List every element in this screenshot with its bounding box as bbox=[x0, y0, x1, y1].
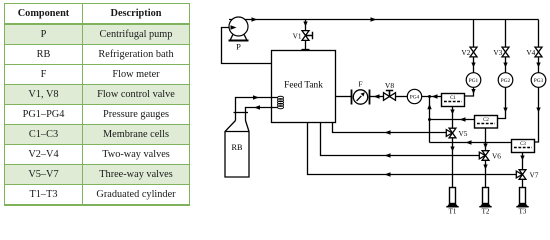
wire: pump suction from feed tank left side bbox=[222, 28, 272, 64]
three-way valve V7 bbox=[519, 170, 526, 180]
wire: V4 branch bbox=[538, 20, 540, 73]
pressure gauge PG2 bbox=[498, 73, 513, 88]
arrow toward F bbox=[374, 94, 380, 98]
arrow on manifold near pump bbox=[252, 17, 258, 21]
pressure gauge PG3 bbox=[531, 73, 546, 88]
svg-text:V7: V7 bbox=[530, 171, 539, 180]
cooling coil inside tank bbox=[278, 96, 284, 109]
wire: PG3 into C3 feed port bbox=[535, 87, 539, 142]
svg-text:V5: V5 bbox=[459, 129, 468, 138]
wire: V7 down to T3 bbox=[522, 179, 524, 187]
membrane cell C3 bbox=[512, 140, 535, 153]
svg-text:C3: C3 bbox=[520, 142, 526, 147]
wire: tank outlet to flow meter bbox=[336, 96, 352, 98]
nozzle tick at tank top bbox=[302, 49, 310, 51]
svg-text:V6: V6 bbox=[492, 152, 501, 161]
arrow up on collector bbox=[427, 104, 431, 110]
svg-text:C2: C2 bbox=[483, 118, 489, 123]
svg-text:PG4: PG4 bbox=[410, 95, 420, 101]
svg-text:PG2: PG2 bbox=[501, 78, 511, 84]
wire: coil return to RB bbox=[246, 108, 279, 121]
wire: V6 down to T2 bbox=[485, 160, 487, 187]
pressure gauge PG4 bbox=[407, 89, 421, 103]
svg-text:V8: V8 bbox=[385, 81, 394, 90]
pump P bbox=[229, 17, 248, 36]
flow meter F bbox=[352, 90, 370, 105]
valve V3 bbox=[502, 47, 509, 57]
svg-text:V4: V4 bbox=[526, 48, 535, 57]
three-way valve V6 bbox=[482, 151, 489, 161]
svg-text:V2: V2 bbox=[461, 48, 470, 57]
wire: F to V8 bbox=[370, 96, 384, 98]
arrow down above PG3 bbox=[536, 63, 540, 68]
wire: V5 down to T1 bbox=[452, 138, 454, 188]
svg-text:PG1: PG1 bbox=[469, 78, 479, 84]
arrow on manifold mid-span bbox=[371, 17, 377, 21]
arrow toward RB bbox=[254, 105, 260, 109]
wire: V2 branch bbox=[473, 20, 475, 73]
wire: PG1 into C1 feed port bbox=[465, 87, 474, 96]
svg-text:PG3: PG3 bbox=[534, 78, 544, 84]
wire: return line 2 to feed tank bbox=[321, 123, 480, 156]
membrane cell C1 bbox=[442, 94, 465, 107]
svg-text:C1: C1 bbox=[450, 96, 456, 101]
valve V8 bbox=[384, 93, 396, 101]
wire: RB supply into coil bbox=[236, 98, 279, 121]
wire: return line 3 to feed tank bbox=[308, 123, 517, 175]
wire: V8 to PG4 bbox=[396, 96, 408, 98]
wire: PG2 into C2 feed port bbox=[498, 87, 506, 118]
svg-text:T2: T2 bbox=[482, 208, 490, 216]
wire: C3 permeate down to V7 bbox=[522, 153, 524, 170]
arrow down above PG1 bbox=[471, 63, 475, 68]
valve V4 bbox=[535, 47, 542, 57]
wire: return line 1 to feed tank bbox=[333, 123, 447, 133]
wire: top manifold from pump outlet to V4 branch bbox=[229, 19, 539, 21]
wire: retentate collector vertical bbox=[429, 97, 431, 143]
valve V2 bbox=[470, 47, 477, 57]
svg-text:Feed Tank: Feed Tank bbox=[284, 81, 323, 91]
svg-text:V1: V1 bbox=[293, 32, 302, 41]
wire: C3 retentate to collector bbox=[430, 142, 512, 144]
component legend table bbox=[4, 3, 190, 206]
graduated cylinder T1 bbox=[446, 188, 458, 216]
svg-text:P: P bbox=[236, 42, 241, 52]
wire: PG4 to cell C1 retentate port bbox=[422, 96, 442, 98]
junction node on retentate header bbox=[428, 95, 431, 98]
wire: V3 branch bbox=[505, 20, 507, 73]
feed tank bbox=[272, 51, 336, 123]
svg-text:V3: V3 bbox=[493, 48, 502, 57]
svg-text:RB: RB bbox=[232, 143, 243, 152]
three-way valve V5 bbox=[449, 128, 456, 138]
graduated cylinder T2 bbox=[479, 188, 491, 216]
valve V1 bbox=[302, 31, 309, 41]
graduated cylinder T3 bbox=[516, 188, 528, 216]
arrow down above PG2 bbox=[503, 63, 507, 68]
wire: C1 permeate down to V5 bbox=[452, 107, 454, 129]
wire: V1 branch from manifold to tank top bbox=[305, 20, 307, 51]
arrow toward tank bbox=[253, 95, 259, 99]
arrow toward PG4 bbox=[432, 94, 438, 98]
arrow down into V1 bbox=[303, 22, 307, 27]
wire: C2 retentate to collector bbox=[430, 119, 475, 121]
refrigeration bath RB bbox=[234, 112, 249, 114]
wire: C2 permeate down to V6 bbox=[485, 128, 487, 151]
svg-text:T1: T1 bbox=[449, 208, 457, 216]
junction node collector / C2 retentate bbox=[428, 118, 431, 121]
svg-text:T3: T3 bbox=[519, 208, 527, 216]
pressure gauge PG1 bbox=[466, 73, 481, 88]
svg-text:F: F bbox=[358, 80, 362, 89]
membrane cell C2 bbox=[475, 116, 498, 129]
